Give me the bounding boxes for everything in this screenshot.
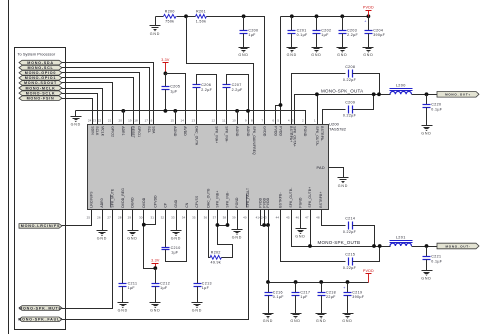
svg-text:2: 2: [302, 118, 304, 122]
svg-text:MONO_OUT-: MONO_OUT-: [446, 244, 471, 248]
svg-text:C217: C217: [300, 290, 310, 294]
svg-text:C219: C219: [352, 290, 362, 294]
svg-text:SPK_OUTA+: SPK_OUTA+: [293, 126, 297, 147]
svg-text:3.3V: 3.3V: [161, 58, 170, 62]
svg-text:21: 21: [108, 118, 112, 122]
svg-text:33: 33: [171, 216, 175, 220]
svg-text:AGND: AGND: [235, 126, 239, 137]
svg-text:C201: C201: [297, 28, 307, 32]
svg-text:37: 37: [213, 216, 217, 220]
svg-text:C210: C210: [171, 246, 181, 250]
svg-text:22µF: 22µF: [326, 295, 336, 299]
svg-text:32: 32: [161, 216, 165, 220]
svg-text:27: 27: [107, 216, 111, 220]
svg-text:DAC_OUTB: DAC_OUTB: [207, 188, 211, 208]
svg-text:C218: C218: [326, 290, 336, 294]
svg-text:SPK_OUTB+: SPK_OUTB+: [308, 187, 312, 208]
svg-text:47: 47: [305, 216, 309, 220]
svg-text:MONO_OUT+: MONO_OUT+: [445, 93, 471, 97]
svg-text:C212: C212: [160, 281, 170, 285]
svg-text:SPK_INA-: SPK_INA-: [225, 126, 229, 142]
svg-text:GND: GND: [150, 309, 160, 313]
svg-text:GND: GND: [421, 276, 431, 280]
svg-text:C205: C205: [170, 85, 180, 89]
svg-text:PGND: PGND: [303, 126, 307, 137]
svg-text:43: 43: [263, 216, 267, 220]
svg-text:GND: GND: [316, 319, 326, 323]
svg-text:GND: GND: [421, 132, 431, 136]
svg-text:14: 14: [180, 118, 184, 122]
svg-text:AGND: AGND: [246, 126, 250, 137]
svg-text:L200: L200: [396, 84, 406, 88]
svg-text:SPK_OUTB-: SPK_OUTB-: [289, 188, 293, 208]
svg-text:MONO-SPK_OUTA: MONO-SPK_OUTA: [321, 89, 363, 94]
svg-text:MONO-GPIO1: MONO-GPIO1: [25, 76, 56, 80]
svg-text:PVDD: PVDD: [363, 6, 374, 10]
svg-text:C213: C213: [202, 281, 212, 285]
svg-text:GPIO2: GPIO2: [111, 126, 115, 137]
svg-text:1.50k: 1.50k: [196, 20, 207, 24]
svg-text:CPVSS: CPVSS: [195, 195, 199, 208]
svg-text:R200: R200: [165, 10, 175, 14]
svg-text:C203: C203: [347, 28, 357, 32]
svg-text:3.3V: 3.3V: [151, 259, 160, 263]
svg-text:GND: GND: [192, 309, 202, 313]
svg-text:MONO-SPK_MUTE: MONO-SPK_MUTE: [19, 306, 62, 310]
svg-text:19: 19: [128, 118, 132, 122]
svg-text:PVDD: PVDD: [266, 197, 270, 207]
svg-text:46: 46: [296, 216, 300, 220]
svg-text:0.22µF: 0.22µF: [343, 114, 357, 118]
svg-text:GND: GND: [150, 32, 160, 36]
svg-text:1µF: 1µF: [202, 286, 210, 290]
svg-text:ADR0: ADR0: [100, 198, 104, 207]
svg-text:GND: GND: [71, 123, 81, 127]
svg-text:3: 3: [292, 118, 294, 122]
svg-text:1µF: 1µF: [170, 90, 178, 94]
svg-text:5: 5: [277, 118, 279, 122]
svg-text:1µF: 1µF: [300, 295, 308, 299]
svg-text:26: 26: [97, 216, 101, 220]
svg-text:MONO-SCL: MONO-SCL: [27, 66, 53, 70]
svg-text:TAS5782: TAS5782: [329, 126, 347, 131]
svg-text:BSTRPA-: BSTRPA-: [320, 126, 324, 141]
svg-text:MONO-GPIO0: MONO-GPIO0: [25, 71, 56, 75]
svg-text:1µF: 1µF: [128, 286, 136, 290]
svg-text:45: 45: [286, 216, 290, 220]
svg-text:1µF: 1µF: [160, 286, 168, 290]
svg-text:PAD: PAD: [317, 166, 325, 170]
svg-text:GND: GND: [337, 53, 347, 57]
svg-text:MONO-MCLK: MONO-MCLK: [25, 86, 55, 90]
svg-text:0.22µF: 0.22µF: [343, 266, 357, 270]
svg-text:MCLK: MCLK: [100, 126, 104, 136]
svg-text:6: 6: [272, 118, 274, 122]
svg-text:MONO-SPK_OUTB: MONO-SPK_OUTB: [318, 240, 361, 245]
svg-text:R202: R202: [211, 251, 221, 255]
svg-text:GND: GND: [118, 309, 128, 313]
svg-text:SPK_GAIN/FREQ: SPK_GAIN/FREQ: [252, 126, 256, 155]
svg-text:22: 22: [98, 118, 102, 122]
svg-text:ADR1: ADR1: [121, 126, 125, 135]
svg-text:CP: CP: [164, 202, 168, 208]
svg-text:GND: GND: [363, 53, 373, 57]
svg-text:CN: CN: [185, 202, 189, 208]
svg-text:1µF: 1µF: [321, 33, 329, 37]
svg-text:SDA: SDA: [152, 126, 156, 134]
svg-text:48: 48: [316, 216, 320, 220]
svg-text:C214: C214: [345, 217, 355, 221]
svg-text:29: 29: [128, 216, 132, 220]
svg-text:16: 16: [149, 118, 153, 122]
svg-text:AVDD: AVDD: [183, 126, 187, 136]
svg-text:C211: C211: [128, 281, 138, 285]
svg-text:SPK_OUTA-: SPK_OUTA-: [315, 126, 319, 146]
svg-text:30: 30: [139, 216, 143, 220]
svg-text:2.2µF: 2.2µF: [201, 88, 212, 92]
svg-text:20: 20: [118, 118, 122, 122]
svg-text:49.9k: 49.9k: [210, 261, 221, 265]
svg-text:SPK_INB+: SPK_INB+: [216, 191, 220, 208]
svg-text:+: +: [364, 20, 366, 24]
svg-text:18: 18: [134, 118, 138, 122]
svg-text:4: 4: [288, 118, 290, 122]
svg-text:SPK_INA+: SPK_INA+: [214, 126, 218, 143]
svg-text:23: 23: [92, 118, 96, 122]
svg-text:31: 31: [150, 216, 154, 220]
svg-text:44: 44: [276, 216, 280, 220]
svg-text:DVDD_REG: DVDD_REG: [121, 188, 125, 208]
svg-text:C216: C216: [273, 290, 283, 294]
svg-text:GND: GND: [232, 236, 242, 240]
svg-text:8: 8: [251, 118, 253, 122]
svg-text:C202: C202: [321, 28, 331, 32]
svg-text:To System Processor: To System Processor: [18, 52, 56, 57]
svg-text:390µF: 390µF: [373, 33, 385, 37]
svg-text:25: 25: [87, 216, 91, 220]
svg-text:GND: GND: [263, 319, 273, 323]
svg-text:0.1µF: 0.1µF: [297, 33, 308, 37]
svg-text:0.1µF: 0.1µF: [273, 295, 284, 299]
svg-text:0.22µF: 0.22µF: [343, 230, 357, 234]
svg-text:MONO-SCLK: MONO-SCLK: [26, 91, 56, 95]
svg-text:7: 7: [261, 118, 263, 122]
svg-text:39: 39: [232, 216, 236, 220]
svg-text:C200: C200: [248, 28, 258, 32]
svg-text:1µF: 1µF: [248, 33, 256, 37]
svg-text:GND: GND: [238, 53, 248, 57]
svg-text:PVDD: PVDD: [273, 126, 277, 136]
svg-text:15: 15: [170, 118, 174, 122]
svg-text:35: 35: [192, 216, 196, 220]
svg-text:0.22µF: 0.22µF: [343, 78, 357, 82]
svg-text:40: 40: [243, 216, 247, 220]
svg-text:34: 34: [182, 216, 186, 220]
svg-text:GPIO1: GPIO1: [137, 126, 141, 137]
svg-text:BSTRPB-: BSTRPB-: [279, 192, 283, 207]
svg-text:C209: C209: [345, 100, 355, 104]
svg-text:AGND: AGND: [173, 126, 177, 137]
svg-text:L201: L201: [396, 235, 406, 239]
svg-text:GND: GND: [311, 53, 321, 57]
svg-text:PVDD: PVDD: [278, 126, 282, 136]
svg-text:PGND: PGND: [235, 197, 239, 208]
svg-text:2.2µF: 2.2µF: [347, 33, 358, 37]
svg-text:9: 9: [245, 118, 247, 122]
svg-text:GND: GND: [97, 237, 107, 241]
svg-text:28: 28: [118, 216, 122, 220]
svg-text:C221: C221: [431, 255, 441, 259]
svg-text:MONO-SPK_FAULT: MONO-SPK_FAULT: [18, 318, 62, 322]
svg-text:12: 12: [212, 118, 216, 122]
svg-text:BSTRPA+: BSTRPA+: [289, 126, 293, 142]
svg-text:GND: GND: [127, 237, 137, 241]
svg-text:GND: GND: [174, 199, 178, 207]
svg-text:GND: GND: [171, 237, 181, 241]
svg-text:10: 10: [232, 118, 236, 122]
svg-text:SPK_INB-: SPK_INB-: [226, 191, 230, 207]
svg-text:0.1µF: 0.1µF: [431, 108, 442, 112]
svg-text:GND: GND: [338, 184, 348, 188]
svg-text:2.2µF: 2.2µF: [232, 88, 243, 92]
svg-text:GND: GND: [290, 319, 300, 323]
svg-text:DGND: DGND: [131, 197, 135, 208]
svg-text:MONO-LRCIN/FS: MONO-LRCIN/FS: [21, 224, 60, 228]
svg-text:1: 1: [314, 118, 316, 122]
svg-text:SCLK: SCLK: [95, 126, 99, 136]
svg-text:38: 38: [223, 216, 227, 220]
svg-text:C207: C207: [232, 83, 242, 87]
svg-text:MONO-SDOUT: MONO-SDOUT: [24, 81, 57, 85]
svg-text:MONO-SDA: MONO-SDA: [27, 61, 54, 65]
svg-text:C204: C204: [373, 28, 383, 32]
svg-text:C206: C206: [201, 83, 211, 87]
svg-text:GND: GND: [287, 53, 297, 57]
svg-text:DVDD: DVDD: [142, 197, 146, 207]
svg-text:11: 11: [222, 118, 226, 122]
svg-text:SPK_MUTE: SPK_MUTE: [110, 188, 114, 208]
svg-text:R201: R201: [196, 10, 206, 14]
svg-text:C220: C220: [431, 103, 441, 107]
svg-text:BSTRPB+: BSTRPB+: [319, 191, 323, 207]
svg-text:GND: GND: [342, 319, 352, 323]
svg-text:1µF: 1µF: [171, 251, 179, 255]
svg-text:C208: C208: [345, 65, 355, 69]
svg-text:36: 36: [204, 216, 208, 220]
svg-text:C215: C215: [345, 253, 355, 257]
svg-text:0.1µF: 0.1µF: [431, 260, 442, 264]
svg-text:PGND: PGND: [299, 197, 303, 208]
svg-text:GND: GND: [295, 235, 305, 239]
svg-text:750k: 750k: [165, 20, 174, 24]
svg-text:17: 17: [144, 118, 148, 122]
svg-text:GVDD: GVDD: [262, 126, 266, 137]
svg-text:+: +: [343, 286, 345, 290]
svg-text:MONO-FSIN: MONO-FSIN: [27, 97, 55, 101]
svg-text:390µF: 390µF: [352, 295, 364, 299]
svg-text:24: 24: [88, 118, 92, 122]
svg-text:SDIN: SDIN: [91, 126, 95, 135]
svg-text:PVDD: PVDD: [363, 269, 374, 273]
svg-text:LRCIN/FS: LRCIN/FS: [90, 191, 94, 208]
svg-text:CPVDD: CPVDD: [154, 195, 158, 208]
svg-text:DAC_OUTA: DAC_OUTA: [194, 126, 198, 146]
svg-text:SCL: SCL: [147, 126, 151, 133]
svg-text:13: 13: [192, 118, 196, 122]
